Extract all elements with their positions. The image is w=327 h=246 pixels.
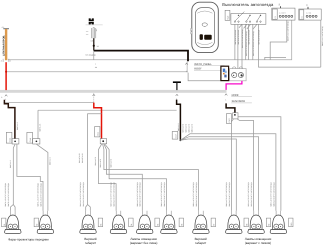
svg-text:Л4: Л4: [130, 224, 133, 226]
svg-text:1: 1: [5, 98, 6, 101]
fan from C107: [238, 117, 281, 211]
car icon: [191, 2, 219, 52]
wire net top right: [259, 63, 321, 68]
wire lamp1 feed: [11, 144, 16, 211]
svg-text:C1: C1: [301, 16, 304, 18]
wire W_bat (orange battery feed bar): [5, 29, 7, 60]
node J1 junction dot: [5, 71, 7, 73]
svg-text:Л5: Л5: [156, 224, 159, 226]
connector C107 body: [233, 113, 238, 119]
svg-text:1: 1: [186, 70, 187, 73]
switch SW1 body: [231, 14, 266, 25]
svg-text:C144: C144: [9, 138, 12, 142]
fan from C111: [99, 144, 117, 211]
wire bus H3 y102.4: [4, 101, 94, 103]
connector X3 block: [299, 9, 321, 20]
svg-text:(вариант с люком): (вариант с люком): [245, 241, 271, 245]
switch SW1 pin dressing diagonals: [239, 24, 257, 29]
lamp L1: [2, 211, 22, 234]
switch SW1 label box: [225, 10, 230, 20]
lamp L4: [110, 211, 133, 234]
svg-text:C8: C8: [91, 39, 93, 42]
wire fuse output: [93, 38, 95, 50]
connector marks band right: [225, 94, 227, 96]
left connector C146: [27, 132, 33, 143]
lamp L10: [270, 211, 293, 234]
connector block X_instr bracket: [186, 62, 188, 73]
wire bus H1 y59.7: [8, 20, 292, 60]
harness band BUS0 (thick light gray horizontal band): [0, 90, 227, 93]
wire lamp2 feed jog: [17, 144, 43, 211]
wire from X2: [270, 20, 287, 60]
wire bus H4 y110.3: [38, 109, 177, 111]
connector C117 label box: [172, 132, 178, 140]
svg-text:4: 4: [10, 59, 11, 62]
fuse F1 body: [92, 28, 96, 39]
wire C146 feed from bus H4: [37, 110, 39, 138]
svg-text:SUNVISOR: SUNVISOR: [232, 100, 246, 103]
lamp L6: [161, 211, 184, 234]
svg-text:габарит: габарит: [85, 241, 97, 245]
connector C111 label box: [95, 127, 100, 137]
lamp L2: [34, 211, 54, 234]
lamp L3: [80, 211, 103, 234]
fuse F1 label: [89, 18, 94, 24]
svg-text:Фары-прожекторы передние: Фары-прожекторы передние: [8, 238, 49, 242]
wire bus H2 y71.8: [6, 71, 188, 73]
wire W_brown_left (dark): [4, 100, 15, 139]
lamp L7: [193, 211, 216, 234]
svg-text:Л7: Л7: [213, 224, 216, 226]
svg-text:Л10: Л10: [290, 223, 293, 226]
svg-text:1: 1: [225, 98, 226, 101]
svg-text:3: 3: [1, 96, 2, 99]
svg-text:Бл. предохр.: Бл. предохр.: [86, 54, 97, 57]
photo icon I_blue: [221, 66, 229, 80]
node J2 junction dot: [93, 45, 95, 47]
wire lamp2 feed diagonal: [36, 144, 48, 211]
svg-text:Л6: Л6: [181, 224, 184, 226]
connector X1 marks: [3, 59, 9, 62]
wire from X_instr to dome lamp: [188, 73, 230, 81]
dome lamp unit L_dome: [230, 69, 247, 81]
svg-text:3: 3: [1, 59, 2, 62]
svg-text:SW2: SW2: [227, 16, 230, 20]
lamp L5: [136, 211, 159, 234]
svg-text:Л9: Л9: [268, 224, 271, 226]
svg-text:Л3: Л3: [100, 224, 103, 226]
wire W_black_bus (thick): [94, 51, 188, 62]
wire W_black_mid: [177, 100, 181, 140]
connector X2 block: [272, 8, 295, 20]
svg-text:Л2: Л2: [36, 224, 39, 226]
switch pin wire labels: [234, 29, 261, 56]
node B+ terminal top-left tick: [3, 28, 9, 30]
wire W_red_left (red): [5, 62, 7, 90]
svg-text:15: 15: [306, 4, 309, 6]
svg-text:габарит: габарит: [195, 241, 207, 245]
left connector C144: [6, 132, 12, 143]
svg-text:C2: C2: [274, 16, 277, 18]
svg-text:0-1: 0-1: [2, 26, 5, 29]
wire W_magenta: [226, 81, 242, 90]
fan from C117: [180, 134, 276, 211]
lamp L8: [226, 211, 249, 234]
connector marks on band left: [5, 95, 7, 97]
connector C107 label box: [227, 114, 232, 124]
wire W_black_roof: [226, 103, 235, 112]
svg-text:X1: X1: [97, 45, 99, 48]
svg-text:(вариант без люка): (вариант без люка): [130, 241, 157, 245]
connector C111 body: [100, 139, 106, 144]
svg-text:30: 30: [278, 4, 281, 6]
wire W_red_mid: [94, 103, 102, 139]
svg-text:C146: C146: [29, 138, 32, 142]
svg-text:Выключатель автопоезда: Выключатель автопоезда: [222, 2, 274, 7]
svg-text:C111: C111: [97, 132, 100, 136]
svg-text:Л1: Л1: [3, 224, 6, 226]
svg-text:C107: C107: [228, 118, 231, 122]
wire from X3: [320, 20, 322, 67]
wire fuse drop: [93, 51, 95, 60]
lamp L9: [248, 211, 271, 234]
svg-text:Л8: Л8: [245, 224, 248, 226]
svg-text:ШТАТНАЯ ПРОВ.: ШТАТНАЯ ПРОВ.: [2, 35, 5, 56]
ground G1: [173, 81, 181, 83]
svg-text:C117: C117: [174, 134, 177, 138]
